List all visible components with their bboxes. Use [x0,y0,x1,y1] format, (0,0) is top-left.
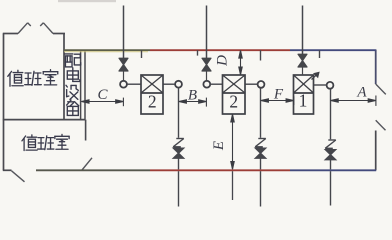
svg-text:F: F [273,87,284,103]
drop riser unit2 with zigzag valve [255,88,266,207]
drop riser unit1 with zigzag valve [173,88,184,207]
valve V1 [119,58,128,80]
branch pipe unit2 [210,83,257,85]
dimension C [81,98,123,107]
tick hanger 1 [141,50,143,58]
node circle unit2 left [203,81,210,88]
wall right vertical lower [375,131,377,171]
svg-text:2: 2 [148,92,157,112]
svg-text:D: D [215,55,231,67]
svg-text:A: A [356,85,367,101]
svg-text:C: C [97,87,108,103]
wall right vertical upper [375,50,377,85]
svg-text:E: E [211,141,227,151]
wall shaft right double [81,50,85,120]
tick hanger 3 [260,50,262,60]
text power distribution equipment [65,54,81,116]
valve V2 [202,58,211,80]
heater unit box 2 [223,75,246,114]
heater unit box 1 [141,75,163,114]
riser up 1 [123,6,125,59]
wall lower room right [85,120,87,141]
pipe bottom main middle segment [150,169,290,171]
dimension D [239,50,242,74]
wall bottom left piece [3,169,12,171]
door leaf bottom-left [12,171,25,182]
wall shaft left [63,34,65,120]
wall top of upper duty room [3,33,65,35]
door leaf right bottom [376,120,386,130]
pipe top main left segment [64,50,150,52]
wall left outer [3,34,5,171]
riser up 3 [302,6,304,55]
dimension B [179,98,207,107]
dimension E [231,114,234,169]
pipe top main right segment [290,49,376,51]
node circle unit1 left [120,81,127,88]
text upper duty room [8,70,58,87]
flow arrow at box3 corner [312,73,319,80]
drop riser unit3 with zigzag valve [325,89,336,206]
branch pipe unit3 [314,84,327,86]
svg-text:2: 2 [229,92,238,112]
svg-text:1: 1 [299,91,308,111]
door double leaf top [18,23,53,34]
drain drop below unit2 [232,171,234,200]
node circle unit1 right [175,81,182,88]
dimension A [331,96,376,106]
door leaf corridor bottom [82,158,92,170]
pipe bottom main left segment [36,169,150,171]
wall mid floor [3,119,85,121]
riser up 2 [206,6,208,59]
tick hanger 4 [319,50,321,58]
tick hanger 2 [197,50,199,55]
node circle unit2 right [258,81,265,88]
pipe bottom main right segment [290,169,376,171]
pipe top main middle segment [150,49,290,51]
heater unit box 3 [294,75,314,114]
branch pipe unit1 [127,83,175,85]
door leaf right top [376,84,386,94]
dimension F [261,96,294,105]
svg-text:B: B [188,88,197,104]
valve V3 [298,54,307,74]
diagram drawn below [58,0,116,2]
node circle unit3 right [327,82,334,89]
text lower duty room [22,134,69,150]
